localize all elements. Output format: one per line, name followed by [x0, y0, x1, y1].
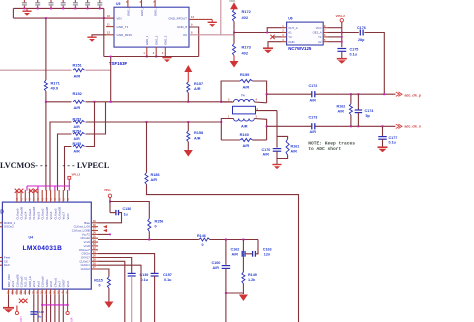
U5 pin 16	[106, 17, 114, 19]
op-amp U5 TSF163F	[114, 7, 189, 47]
capacitor bank element 3	[50, 6, 52, 9]
U5 bottom pins	[146, 47, 148, 56]
svg-text:402: 402	[242, 51, 249, 56]
svg-text:0.1u: 0.1u	[389, 141, 397, 145]
wire	[110, 57, 112, 102]
wire shield to RC	[256, 110, 278, 112]
svg-text:to ADC short: to ADC short	[308, 146, 341, 152]
power down circle VPLL2	[67, 295, 69, 312]
svg-text:DLD: DLD	[4, 263, 10, 267]
svg-text:0.1u: 0.1u	[164, 278, 172, 282]
wire long run to bottom right	[147, 185, 299, 322]
capacitor bank element 7	[99, 6, 101, 9]
svg-text:R172: R172	[242, 9, 252, 14]
wire OSCout row to C157	[98, 254, 155, 273]
svg-text:GND_6: GND_6	[140, 6, 144, 16]
wire	[189, 27, 199, 57]
resistor R151 A/R	[72, 68, 86, 73]
capacitor C172 A/R	[311, 91, 313, 97]
svg-text:A/R: A/R	[338, 109, 345, 113]
wire stub	[98, 233, 110, 235]
U6 right pin stubs	[323, 27, 327, 29]
power down circle	[16, 306, 18, 312]
svg-text:5p: 5p	[366, 114, 371, 118]
svg-text:A/R: A/R	[194, 87, 201, 91]
svg-text:A/R: A/R	[151, 178, 158, 182]
svg-text:GND_T1: GND_T1	[117, 25, 129, 29]
svg-text:A/R: A/R	[310, 130, 317, 134]
svg-text:C157: C157	[163, 273, 172, 277]
capacitor C133	[30, 311, 37, 313]
svg-text:0.1u: 0.1u	[350, 52, 358, 56]
ground arrow	[184, 150, 193, 157]
svg-text:12n: 12n	[264, 252, 271, 256]
svg-text:NC7WV125: NC7WV125	[288, 46, 312, 51]
wire OSCin row to C139 (pale)	[98, 258, 132, 274]
ground	[211, 19, 213, 21]
wire	[233, 22, 235, 35]
svg-text:VPLL2: VPLL2	[336, 14, 346, 18]
wire magenta Vcc bus	[68, 179, 70, 186]
U4 right pins	[91, 222, 98, 224]
svg-text:GND: GND	[288, 40, 294, 44]
svg-text:A/R: A/R	[74, 149, 81, 153]
capacitor bank element 2	[37, 6, 39, 9]
ground	[162, 57, 171, 59]
ground arrow	[239, 295, 248, 302]
U4 left pins	[0, 222, 2, 224]
resistor R152 A/R	[72, 100, 86, 105]
wire to U4 pins	[45, 102, 47, 191]
capacitor C173 A/R	[311, 123, 313, 129]
svg-text:28p: 28p	[358, 38, 365, 42]
wire GND_RFIN to ground	[92, 35, 106, 37]
svg-text:VCC: VCC	[316, 26, 322, 30]
wire U5 frame	[103, 8, 105, 56]
ground	[337, 58, 347, 60]
svg-text:OUT_A: OUT_A	[288, 26, 297, 30]
ground	[87, 36, 96, 38]
svg-text:A/R: A/R	[232, 252, 239, 256]
wire to U6	[234, 32, 282, 34]
svg-text:T4: T4	[241, 94, 245, 98]
resistor R149 1.2k	[242, 254, 244, 272]
wire branch to OUT_A	[267, 28, 281, 33]
resistor R186 A/R	[146, 122, 148, 173]
svg-text:R156: R156	[155, 220, 164, 224]
wire DAP_PAD to ground	[8, 295, 10, 308]
U5 right pins	[189, 18, 212, 20]
svg-text:R158: R158	[194, 131, 203, 135]
resistor R155 A/R	[65, 102, 95, 191]
capacitor C176 28p	[359, 30, 361, 36]
capacitor C170 A/R	[276, 111, 278, 148]
svg-text:GND_3: GND_3	[164, 35, 168, 45]
resistor R154 A/R	[58, 102, 106, 191]
svg-text:A2: A2	[318, 40, 322, 44]
svg-text:GND_RFIN: GND_RFIN	[117, 33, 132, 37]
ground	[26, 8, 28, 10]
svg-text:U6: U6	[288, 17, 292, 21]
svg-text:R151: R151	[73, 62, 83, 67]
wire SYNC row down	[98, 261, 125, 322]
wire Y1 to C176	[342, 32, 359, 34]
resistor R160 A/R	[240, 138, 252, 141]
wire	[45, 18, 47, 80]
svg-text:R160: R160	[240, 132, 249, 137]
ground arrow	[233, 56, 235, 62]
svg-text:VPLL2: VPLL2	[72, 173, 81, 177]
U5 top pins (clipped)	[127, 0, 129, 7]
resistor R146 0	[199, 238, 210, 241]
svg-text:0: 0	[155, 225, 157, 229]
svg-text:TSF163F: TSF163F	[109, 61, 128, 66]
svg-text:Y1: Y1	[318, 35, 322, 39]
svg-text:D: D	[0, 210, 4, 216]
no-connect X on Y2	[273, 36, 282, 38]
wires bottom pins down	[33, 295, 35, 322]
svg-text:R115: R115	[94, 279, 103, 283]
capacitor C163 12n	[245, 253, 253, 255]
resistor R156 0	[110, 202, 149, 219]
resistor R173 402	[233, 35, 235, 44]
svg-text:0: 0	[202, 243, 204, 247]
transformer T4 core	[233, 106, 256, 114]
no-connect X marks	[15, 189, 19, 193]
resistor R158 A/R	[187, 122, 189, 131]
svg-text:VDD: VDD	[229, 0, 236, 3]
svg-text:LVCMOS- - -: LVCMOS- - -	[0, 161, 48, 170]
wire	[12, 8, 14, 18]
svg-text:8u: 8u	[38, 315, 42, 319]
port adc_clk_n	[396, 124, 402, 128]
ground	[263, 47, 273, 49]
svg-text:C175: C175	[350, 48, 359, 52]
transformer T4 secondary	[234, 119, 255, 122]
wire (pale) R151 net	[0, 69, 111, 71]
port adc_clk_p	[396, 92, 402, 96]
resistor R172 402	[232, 9, 235, 21]
wire	[327, 27, 341, 29]
no-connect X	[19, 299, 23, 303]
wire main row	[46, 101, 232, 103]
svg-text:A/R: A/R	[194, 136, 201, 140]
svg-text:LOCK: LOCK	[19, 317, 23, 322]
buffer U6 NC7WV125	[287, 22, 324, 45]
U5 pin 11	[106, 26, 114, 28]
svg-text:Vcc1: Vcc1	[66, 213, 70, 220]
svg-text:C160: C160	[212, 261, 221, 265]
svg-text:C163: C163	[263, 248, 272, 252]
wire secondary right	[254, 119, 266, 141]
svg-text:VIN: VIN	[117, 17, 122, 21]
svg-text:R146: R146	[197, 234, 206, 238]
ground	[3, 307, 14, 309]
svg-text:A/R: A/R	[74, 73, 81, 78]
svg-text:A/R: A/R	[243, 143, 250, 148]
svg-text:C162: C162	[231, 248, 240, 252]
wire	[255, 240, 258, 254]
svg-text:A1: A1	[288, 31, 292, 35]
U4 bottom pins	[8, 289, 10, 295]
svg-text:U5: U5	[116, 2, 120, 6]
svg-text:A/R: A/R	[243, 85, 250, 90]
wire	[327, 32, 341, 34]
svg-text:NOTE: Keep traces: NOTE: Keep traces	[308, 141, 355, 147]
no-connect arrows	[103, 225, 107, 228]
svg-text:GND_5: GND_5	[126, 6, 130, 16]
svg-text:A/R: A/R	[213, 266, 220, 270]
svg-text:GND_7: GND_7	[154, 6, 158, 16]
svg-text:R152: R152	[73, 91, 83, 96]
svg-text:adc_clk_p: adc_clk_p	[405, 93, 421, 97]
wire top output row	[267, 93, 312, 95]
svg-text:C170: C170	[262, 148, 271, 152]
capacitor bank element 1	[23, 6, 25, 9]
svg-text:- - - LVPECL: - - - LVPECL	[63, 161, 110, 170]
svg-text:1u: 1u	[124, 212, 128, 216]
capacitor C177 0.1u	[382, 126, 384, 136]
svg-text:49.9: 49.9	[51, 86, 59, 91]
wire secondary left	[221, 119, 233, 141]
capacitor C157 0.1u	[151, 272, 159, 274]
svg-text:0: 0	[99, 284, 101, 288]
resistor R153 A/R	[50, 122, 221, 191]
svg-text:OE2_A: OE2_A	[313, 31, 322, 35]
svg-text:A/R: A/R	[74, 125, 81, 129]
svg-text:C133: C133	[37, 310, 45, 314]
wire magenta tie	[42, 304, 67, 306]
resistor R161 A/R	[277, 136, 288, 139]
wire GND to ground	[268, 42, 282, 48]
svg-text:1.2k: 1.2k	[248, 278, 256, 282]
svg-text:GND_1: GND_1	[145, 35, 149, 45]
svg-text:C173: C173	[309, 116, 318, 120]
svg-text:A/R: A/R	[310, 99, 317, 103]
ground	[272, 164, 281, 166]
capacitor C162 A/R	[242, 240, 244, 254]
resistor R171 49.9	[44, 80, 47, 91]
ground	[378, 146, 388, 148]
svg-text:R154: R154	[73, 130, 82, 134]
svg-text:R153: R153	[73, 118, 82, 122]
svg-text:OSCin2: OSCin2	[4, 225, 14, 229]
svg-text:C177: C177	[389, 136, 398, 140]
svg-text:Y2: Y2	[288, 35, 292, 39]
svg-text:A/R: A/R	[291, 149, 298, 153]
wire VPLL2 rail	[341, 22, 343, 47]
svg-text:C136: C136	[123, 207, 132, 211]
power arrow	[184, 65, 192, 72]
svg-text:I/O: I/O	[183, 33, 188, 37]
capacitor C136 1u	[110, 212, 115, 214]
U5 pin 12	[106, 34, 114, 36]
wire I/O output (pale)	[189, 34, 234, 36]
svg-text:adc_clk_n: adc_clk_n	[405, 125, 421, 129]
wire	[226, 292, 244, 294]
wire	[364, 33, 384, 95]
wire	[276, 151, 278, 164]
resistor R157 A/R	[187, 82, 190, 93]
svg-text:R157: R157	[194, 82, 203, 86]
U6 left pin stubs	[282, 27, 287, 29]
svg-text:0.1u: 0.1u	[141, 278, 149, 282]
svg-text:R155: R155	[73, 142, 82, 146]
svg-text:R159: R159	[240, 72, 250, 77]
resistor R159 A/R	[221, 81, 240, 102]
svg-text:A/R: A/R	[263, 153, 270, 157]
capacitor C175 0.1u	[337, 48, 346, 50]
svg-text:LMX04031B: LMX04031B	[23, 245, 63, 252]
svg-text:GND_RFOUT: GND_RFOUT	[168, 17, 187, 21]
svg-text:R149: R149	[248, 273, 257, 277]
svg-text:GND_2: GND_2	[155, 35, 159, 45]
svg-text:C176: C176	[357, 26, 366, 30]
capacitor C160 A/R	[225, 240, 227, 265]
svg-text:GND_8: GND_8	[177, 25, 187, 29]
wire VIN net	[13, 17, 114, 19]
capacitor bank element 6	[87, 6, 89, 9]
svg-text:R161: R161	[291, 145, 300, 149]
wire CPout2 row	[98, 239, 199, 241]
wire	[109, 198, 111, 213]
wire	[13, 7, 103, 9]
svg-text:U4: U4	[29, 236, 34, 240]
wire bottom output row	[267, 125, 312, 127]
svg-text:Vcc2: Vcc2	[66, 281, 70, 288]
wire	[327, 36, 341, 38]
svg-text:A/R: A/R	[74, 105, 81, 110]
wire to Bias pin	[98, 213, 122, 223]
capacitor bank element 4	[62, 6, 64, 9]
svg-text:A/R: A/R	[241, 124, 248, 128]
capacitor C139 0.1u	[128, 272, 136, 274]
capacitor bank element 5	[74, 6, 76, 9]
svg-text:R173: R173	[242, 45, 252, 50]
svg-text:CLKin0: CLKin0	[81, 267, 91, 271]
svg-text:A/R: A/R	[74, 137, 81, 141]
wire pale rail from top	[220, 0, 222, 35]
resistor R162 A/R	[350, 94, 352, 104]
resistor R115 0	[98, 269, 109, 277]
svg-text:402: 402	[242, 15, 249, 20]
wire	[327, 41, 341, 43]
svg-text:VPLL: VPLL	[104, 188, 111, 192]
svg-text:C172: C172	[309, 84, 318, 88]
ground arrow	[104, 302, 113, 309]
chip U4 LMX04031B	[2, 202, 91, 289]
U4 top pins	[16, 190, 18, 202]
svg-text:R186: R186	[151, 173, 160, 177]
wire CLKin1 row down	[98, 265, 141, 322]
svg-text:R162: R162	[337, 105, 346, 109]
svg-text:C174: C174	[365, 109, 375, 113]
svg-text:VPLL2: VPLL2	[70, 318, 74, 322]
capacitor C174 5p	[357, 94, 359, 110]
